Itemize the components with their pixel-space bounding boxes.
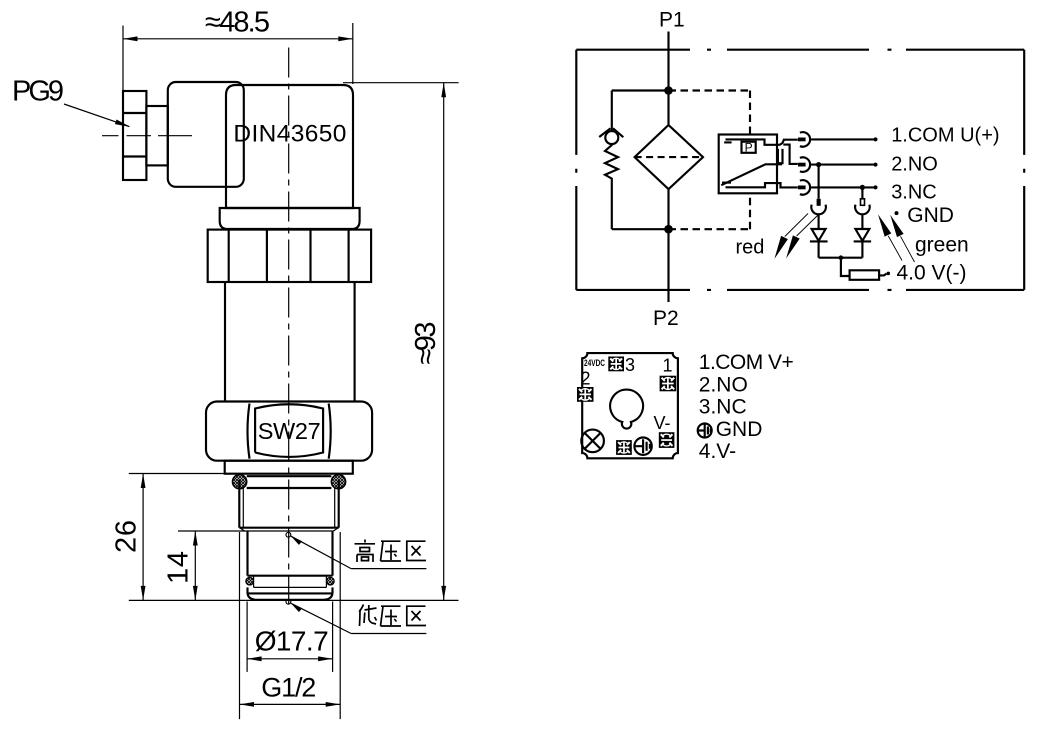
body tube [224,282,226,402]
svg-text:V-: V- [654,413,671,433]
o-ring right [331,475,345,489]
screw terminal 1 [660,376,677,392]
vertical centerline of sensor [288,48,290,605]
svg-text:GND: GND [716,418,763,441]
housing flange [220,208,360,229]
enclosure boundary right [1023,50,1025,290]
svg-text:1.COM V+: 1.COM V+ [699,351,794,374]
port P1 line [667,32,669,126]
red LED wire [818,214,820,229]
red LED connector pin (filled) [817,199,821,206]
dim line Ø17.7 [247,658,333,660]
green LED arrows [878,214,891,236]
svg-text:3.NC: 3.NC [699,396,747,419]
port groove top [248,575,333,577]
red LED emission arrows [774,236,788,259]
screw terminal 4 [616,440,632,455]
leader line PG9 [64,104,129,127]
hex facet arcs [248,404,250,459]
thread minor lines [242,488,244,528]
small o-ring left [246,577,254,585]
terminal contact 2 socket [800,157,810,172]
screw terminal V- [659,432,675,448]
LED common wire [819,257,863,259]
gland horizontal centerline [102,135,192,137]
dim 14 reference line / port shoulder [178,530,334,532]
dim line G1/2 [240,703,341,705]
svg-text:1.COM U(+): 1.COM U(+) [891,125,999,147]
thread bottom edge [239,527,338,529]
wire to spring branch top [612,89,669,91]
svg-text:≈48.5: ≈48.5 [205,7,270,39]
wire row 1 [810,138,875,140]
lower port outer lines [246,531,248,576]
dimension ~48.5 extension line left [122,26,124,96]
bottom reference line [129,599,459,601]
svg-text:GND: GND [907,204,954,227]
dashed link top junction to switch [669,89,751,91]
center keyway hole [610,390,643,429]
connector main housing DIN43650 [226,85,353,208]
G1/2 thread outer lines [238,480,240,528]
dim G1/2 extension lines [239,532,241,719]
diamond dashed centerline [635,156,703,158]
svg-text:1: 1 [663,355,673,375]
red LED branch wire [818,165,820,199]
dim ~93 [443,83,445,601]
green LED branch wire [861,187,863,198]
port tip [246,587,248,593]
svg-text:3.NC: 3.NC [891,182,937,204]
svg-text:2: 2 [581,368,591,388]
switch inner stub [724,141,731,143]
roof mark over circle [599,128,623,137]
small o-ring right [327,577,335,585]
wire row 3 [810,186,875,188]
screw terminal 3 [608,357,624,372]
svg-text:2.NO: 2.NO [891,153,938,175]
spring branch wire down [611,91,613,132]
top reference line (93 dim) [343,82,459,84]
green LED connector socket [855,205,870,215]
svg-text:P: P [745,140,753,154]
P label box [742,142,756,153]
green LED connector pin (open) [861,199,865,206]
enclosure boundary bottom [576,289,1024,291]
junction green LED branch [860,185,865,190]
text 低压区 (drawn strokes) [359,605,426,627]
svg-text:14: 14 [163,551,195,584]
wire row 2 [810,164,875,166]
knurled locking ring [208,230,371,282]
dashed link bottom junction to switch [669,228,751,230]
svg-text:P1: P1 [659,8,685,31]
dimension ~48.5 extension line right [352,23,354,84]
switch NO contact channel [778,149,783,163]
collar under hex [225,461,353,474]
svg-text:PG9: PG9 [12,76,64,108]
switch wire to NO terminal [783,145,798,164]
text 高压区 (drawn strokes) [355,540,427,563]
gland neck [146,106,167,165]
switch common bar [726,139,798,144]
dim 26 top reference line [129,473,227,475]
svg-text:red: red [736,237,765,259]
o-ring left [233,475,247,489]
screw terminal 2 [577,387,594,402]
leader low pressure zone: target circle [286,599,291,604]
switch lever [721,164,782,185]
svg-text:G1/2: G1/2 [261,672,316,702]
hex nut SW27 outline [206,402,372,461]
terminal contact 2 pin [798,163,806,167]
dim 14 [194,531,196,600]
svg-text:4.V-: 4.V- [699,440,736,463]
PG9 cable gland body [123,91,146,180]
green LED wire [861,214,863,229]
connector left housing block [168,82,244,187]
wire resistor to pin4 [879,274,886,276]
svg-text:Ø17.7: Ø17.7 [255,626,329,657]
svg-text:2.NO: 2.NO [699,373,748,396]
dim 26 [142,474,144,601]
GND node dot [895,211,899,215]
red LED diode [812,229,826,241]
dimension line ~48.5 [123,38,353,40]
enclosure boundary box (dash-dot) top [576,49,1024,51]
port groove inner walls [253,576,255,588]
svg-text:DIN43650: DIN43650 [233,121,346,148]
junction node top [664,86,673,95]
terminal contact 3 pin [798,186,806,190]
port P2 line [667,189,669,302]
adjustment element circle [605,131,618,144]
GND symbol in list [698,424,712,438]
svg-text:3: 3 [625,355,635,375]
leader high pressure zone: target circle [286,532,291,537]
red LED connector socket [811,205,826,215]
differential pressure element (diamond) [635,125,703,189]
terminal contact 3 socket [800,180,810,195]
junction red LED branch [816,162,821,167]
svg-text:green: green [915,234,969,257]
wire spring bottom to junction [612,228,669,230]
resistor R [850,270,880,280]
switch NC bar [726,183,798,187]
pressure switch box [719,135,777,194]
enclosure boundary left [575,50,577,290]
svg-text:≈93: ≈93 [410,322,442,365]
junction resistor drop [839,255,844,260]
earth ground symbol on face [634,438,651,455]
svg-text:4.0 V(-): 4.0 V(-) [897,261,967,284]
svg-text:26: 26 [111,520,143,553]
connector face plate outline [582,353,678,458]
terminal contact 1 pin [798,138,806,142]
svg-text:SW27: SW27 [258,418,321,444]
lamp symbol (circle with X) [581,430,604,453]
junction node bottom [664,225,673,234]
o-ring groove band [247,475,332,477]
terminal contact 1 socket [800,132,810,147]
green LED diode [855,229,869,241]
svg-text:P2: P2 [653,307,679,330]
spring (zigzag) [605,144,618,229]
dim Ø17.7 extension lines [246,602,248,672]
thread end chamfers [240,528,245,532]
